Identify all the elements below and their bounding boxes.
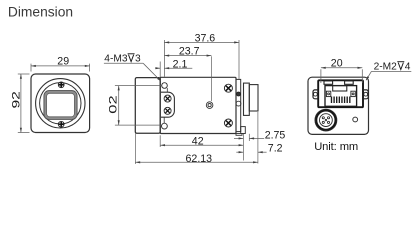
svg-text:62.13: 62.13	[186, 153, 213, 165]
svg-text:20: 20	[331, 58, 343, 70]
svg-text:2.1: 2.1	[173, 59, 188, 71]
svg-text:2.75: 2.75	[265, 129, 286, 141]
svg-text:7.2: 7.2	[268, 143, 283, 155]
svg-text:23.7: 23.7	[179, 46, 200, 58]
svg-text:02: 02	[107, 95, 119, 114]
svg-text:92: 92	[11, 91, 23, 109]
svg-text:2-M2: 2-M2	[374, 62, 398, 73]
svg-text:37.6: 37.6	[195, 33, 216, 45]
svg-text:4: 4	[405, 62, 411, 73]
svg-text:42: 42	[192, 136, 204, 148]
svg-text:29: 29	[57, 56, 69, 68]
svg-text:Unit: mm: Unit: mm	[314, 141, 358, 153]
svg-text:Dimension: Dimension	[8, 5, 73, 20]
